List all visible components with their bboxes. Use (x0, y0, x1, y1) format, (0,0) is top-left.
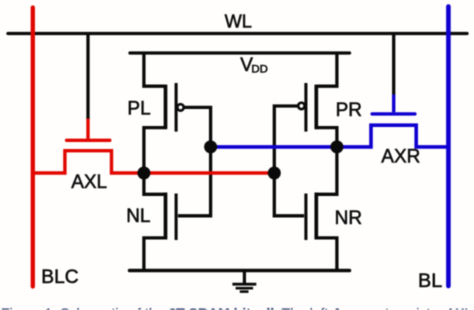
svg-text:PL: PL (127, 98, 150, 119)
svg-text:PR: PR (336, 100, 362, 121)
svg-text:BL: BL (418, 270, 442, 292)
svg-text:WL: WL (225, 11, 252, 31)
svg-text:DD: DD (251, 63, 267, 75)
svg-text:BLC: BLC (41, 267, 78, 288)
svg-text:AXL: AXL (71, 172, 107, 193)
svg-text:AXR: AXR (381, 146, 420, 167)
svg-text:NL: NL (126, 206, 150, 227)
svg-text:Figure 1: Schematic of the 6T: Figure 1: Schematic of the 6T SRAM bitce… (1, 305, 474, 310)
svg-text:NR: NR (335, 208, 362, 229)
